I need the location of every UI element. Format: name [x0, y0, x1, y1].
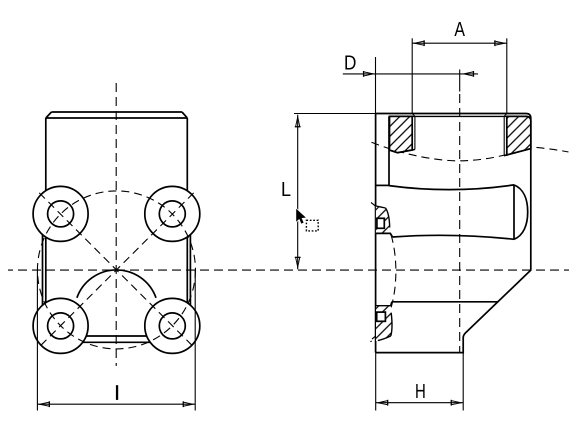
- svg-text:L: L: [281, 178, 291, 201]
- plate dashed arc: [371, 203, 396, 340]
- port wall hatch right: [507, 116, 531, 155]
- bolt hole boss bottom-left: [33, 298, 88, 353]
- dimension L arrow top: [295, 115, 301, 128]
- dimension H extension lines: [375, 353, 377, 411]
- upper bolt hole section bottom line: [376, 233, 393, 237]
- front view: back plate contour left: [42, 235, 44, 306]
- spool boss end line: [513, 185, 515, 239]
- bolt hole boss bottom-right: [145, 298, 200, 353]
- lower bolt hole section bottom curve: [378, 336, 391, 341]
- selection box: [306, 220, 318, 231]
- svg-text:H: H: [415, 380, 426, 403]
- upper bolt hole section hatch: [376, 206, 390, 233]
- bolt hole bottom-left: [48, 313, 74, 339]
- bolt circle: [37, 191, 195, 349]
- side view outline: [376, 114, 531, 353]
- top chamfer line: [389, 115, 528, 117]
- flange plate edge: [388, 116, 390, 185]
- upper bolt hole section top line: [376, 206, 386, 208]
- dimension A arrow right: [494, 40, 507, 46]
- bolt hole boss top-right: [145, 186, 200, 241]
- dimension D line: [343, 73, 478, 75]
- dimension H arrow left: [376, 400, 389, 406]
- dimension I extension lines: [36, 271, 38, 411]
- lower bolt hole section top line: [376, 302, 392, 306]
- front view: dome bore arc: [77, 270, 156, 298]
- lower bolt hole rect: [377, 312, 386, 321]
- dimension L line: [297, 115, 299, 269]
- spool boss top edge: [389, 185, 514, 190]
- vertical centerline front view: [115, 83, 117, 366]
- dimension I arrow left: [37, 401, 50, 407]
- port thread chamfer right: [504, 114, 507, 118]
- port wall right bottom slant: [504, 149, 531, 156]
- dimension A arrow left: [412, 40, 425, 46]
- svg-text:A: A: [454, 18, 465, 41]
- dimension D arrow left (outside): [363, 71, 376, 77]
- upper bolt hole section curve: [386, 208, 390, 228]
- port thread minor line right: [503, 116, 505, 155]
- svg-text:D: D: [344, 52, 356, 75]
- spool boss dome cap: [514, 185, 528, 239]
- stray dash: [370, 340, 372, 342]
- shelf line: [376, 184, 389, 186]
- front view: back plate contour bottom: [83, 341, 151, 343]
- lower step line: [392, 301, 498, 303]
- lower bolt hole section curve: [391, 313, 392, 336]
- lower bolt hole section hatch: [376, 306, 392, 341]
- front view: body outline: [46, 112, 188, 336]
- dimension D arrow right (outside): [462, 71, 475, 77]
- dimension H arrow right: [451, 400, 464, 406]
- upper bolt hole rect: [377, 218, 384, 228]
- spool boss bottom edge: [393, 235, 515, 239]
- port wall left bottom V: [390, 150, 415, 153]
- mouse cursor: [296, 209, 306, 224]
- bolt hole top-left: [48, 201, 74, 227]
- bolt hole bottom-right: [159, 313, 185, 339]
- port centerline dashed: [459, 94, 461, 354]
- bolt hole boss top-left: [33, 186, 88, 241]
- bolt hole top-right: [159, 201, 185, 227]
- dimension D left extension: [375, 57, 377, 113]
- horizontal centerline: [8, 269, 569, 271]
- dimension A extension lines: [411, 38, 413, 113]
- diagonal centerline 2: [39, 192, 195, 347]
- top face extension to L: [294, 113, 376, 115]
- label I: [116, 385, 118, 400]
- dimension I arrow right: [183, 401, 196, 407]
- sphere dashed curve: [372, 142, 569, 161]
- dimension A line: [412, 42, 507, 44]
- port centerline solid part: [459, 70, 461, 92]
- port wall hatch left: [390, 116, 413, 152]
- diagonal centerline 1: [39, 192, 195, 347]
- front view: back plate contour right: [189, 235, 191, 306]
- port thread minor line left: [414, 116, 416, 149]
- dimension L arrow bottom: [295, 257, 301, 270]
- dimension I line: [37, 403, 195, 405]
- port thread chamfer left: [412, 114, 415, 118]
- dimension H line: [376, 402, 464, 404]
